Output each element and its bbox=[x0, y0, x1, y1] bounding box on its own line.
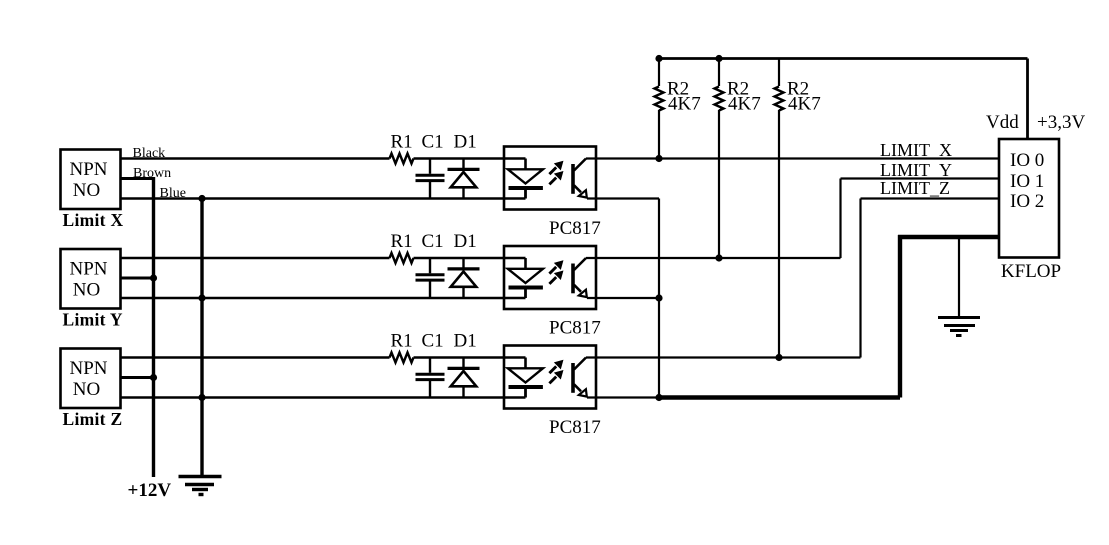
svg-text:D1: D1 bbox=[454, 231, 477, 252]
svg-text:C1: C1 bbox=[422, 231, 444, 252]
svg-text:NO: NO bbox=[73, 379, 100, 400]
svg-text:Blue: Blue bbox=[160, 186, 186, 201]
svg-text:+3,3V: +3,3V bbox=[1037, 112, 1085, 133]
svg-text:NPN: NPN bbox=[69, 259, 107, 280]
svg-text:D1: D1 bbox=[454, 331, 477, 352]
svg-text:R1: R1 bbox=[391, 132, 413, 153]
svg-text:KFLOP: KFLOP bbox=[1001, 261, 1061, 282]
svg-text:Vdd: Vdd bbox=[986, 112, 1019, 133]
svg-text:Black: Black bbox=[133, 146, 166, 161]
svg-text:4K7: 4K7 bbox=[788, 94, 821, 115]
svg-text:LIMIT_Y: LIMIT_Y bbox=[880, 160, 952, 180]
svg-text:4K7: 4K7 bbox=[668, 94, 701, 115]
svg-text:R1: R1 bbox=[391, 231, 413, 252]
svg-text:C1: C1 bbox=[422, 132, 444, 153]
svg-text:LIMIT_Z: LIMIT_Z bbox=[880, 178, 950, 198]
svg-text:PC817: PC817 bbox=[549, 417, 601, 438]
svg-text:IO 2: IO 2 bbox=[1010, 191, 1044, 212]
svg-text:Limit X: Limit X bbox=[63, 210, 124, 230]
svg-text:C1: C1 bbox=[422, 331, 444, 352]
svg-text:D1: D1 bbox=[454, 132, 477, 153]
svg-text:PC817: PC817 bbox=[549, 318, 601, 339]
svg-text:NPN: NPN bbox=[69, 358, 107, 379]
svg-text:Limit Z: Limit Z bbox=[63, 409, 123, 429]
svg-text:R1: R1 bbox=[391, 331, 413, 352]
svg-text:4K7: 4K7 bbox=[728, 94, 761, 115]
svg-text:Limit Y: Limit Y bbox=[63, 310, 123, 330]
svg-text:IO 1: IO 1 bbox=[1010, 171, 1044, 192]
svg-text:NO: NO bbox=[73, 180, 100, 201]
svg-text:NPN: NPN bbox=[69, 159, 107, 180]
svg-text:PC817: PC817 bbox=[549, 218, 601, 239]
svg-text:LIMIT_X: LIMIT_X bbox=[880, 140, 952, 160]
svg-text:IO 0: IO 0 bbox=[1010, 150, 1044, 171]
svg-text:+12V: +12V bbox=[128, 480, 172, 501]
svg-text:NO: NO bbox=[73, 280, 100, 301]
svg-text:Brown: Brown bbox=[133, 166, 171, 181]
